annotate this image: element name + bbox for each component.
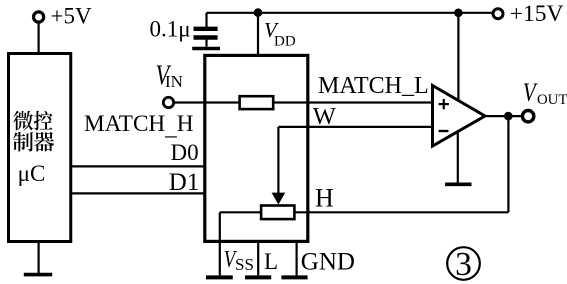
node junction (cap/VDD) [254, 8, 263, 17]
svg-text:MATCH_H: MATCH_H [84, 111, 194, 141]
wire VDD stem [257, 13, 259, 56]
wire +5V to microcontroller [37, 22, 39, 53]
capacitor C1 0.1u [194, 13, 218, 47]
wire microcontroller to ground [37, 242, 39, 275]
svg-text:0.1μ: 0.1μ [150, 17, 191, 42]
node junction (+15V branch) [454, 9, 463, 18]
wire pot left to VSS [220, 211, 261, 213]
svg-text:D1: D1 [169, 169, 200, 196]
power terminal +5V [34, 4, 92, 29]
ground (L) [245, 275, 271, 279]
wire wiper drop [277, 127, 279, 195]
wire D0 [71, 165, 205, 167]
op-amp U3 [433, 86, 486, 147]
input terminal VIN [163, 97, 173, 107]
op-amp - pin [439, 130, 449, 132]
label 微控制器 μC [13, 111, 54, 186]
output terminal VOUT [522, 111, 533, 122]
svg-text:IN: IN [165, 72, 183, 91]
wire op-amp output [487, 115, 522, 117]
ground (GND pin) [281, 275, 307, 279]
ground (left, under microcontroller) [24, 273, 52, 277]
node junction (output/feedback) [504, 112, 513, 121]
svg-text:GND: GND [301, 248, 355, 275]
figure number 3 (circled) [447, 246, 480, 283]
wire H to output feedback [294, 211, 508, 213]
pin label VSS [224, 245, 254, 275]
digital potentiometer U2 box [205, 55, 308, 241]
svg-text:+5V: +5V [51, 4, 92, 29]
svg-text:DD: DD [274, 33, 296, 49]
wire L pin stem [257, 241, 259, 275]
label VOUT [523, 79, 567, 108]
wire +15V branch to op-amp supply [457, 13, 459, 100]
svg-text:L: L [264, 249, 278, 274]
pin label VDD [264, 18, 296, 49]
svg-text:H: H [315, 184, 334, 213]
svg-text:D0: D0 [171, 140, 199, 165]
potentiometer R2 [261, 206, 294, 220]
svg-text:3: 3 [455, 246, 472, 283]
svg-text:SS: SS [235, 255, 254, 274]
svg-text:MATCH_L: MATCH_L [318, 73, 429, 99]
ground (under capacitor) [192, 47, 220, 51]
label VIN [156, 60, 183, 91]
power terminal +15V [493, 1, 564, 27]
wire op-amp to ground [457, 133, 459, 183]
op-amp + pin [439, 99, 449, 109]
wiper arrow [272, 193, 286, 205]
svg-text:+15V: +15V [510, 1, 564, 27]
microcontroller U1 box [9, 54, 71, 242]
svg-text:OUT: OUT [537, 92, 567, 108]
wire GND pin stem [296, 241, 298, 275]
svg-text:V: V [523, 79, 538, 107]
ground (under op-amp) [445, 183, 471, 187]
svg-text:μC: μC [18, 161, 46, 186]
wire D1 [71, 192, 205, 194]
resistor R1 [240, 96, 274, 109]
wire top rail VDD to +15V [207, 12, 493, 14]
wire W to op-amp - [278, 126, 432, 128]
ground (VSS) [206, 275, 233, 279]
wire VIN to op-amp + (signal line) [174, 101, 432, 103]
